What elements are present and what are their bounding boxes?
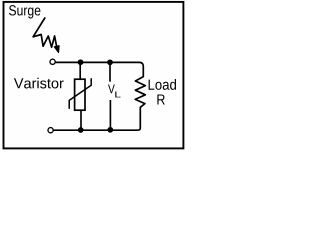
varistor RV1	[69, 79, 91, 110]
node varistor top junction	[78, 59, 84, 65]
wire VL lower segment	[109, 100, 111, 130]
label Varistor	[14, 78, 64, 89]
surge arrow	[33, 18, 59, 52]
wire top rail	[55, 62, 143, 70]
node varistor bottom junction	[78, 127, 84, 133]
wire bottom rail	[54, 129, 137, 131]
wire varistor bottom lead	[80, 110, 82, 130]
wire varistor top lead	[79, 63, 81, 80]
label Load	[149, 79, 176, 90]
label Surge	[9, 5, 40, 18]
label VL	[108, 84, 121, 97]
node VL bottom junction	[107, 127, 113, 133]
terminal T2 bottom input	[48, 128, 53, 133]
wire VL upper segment	[109, 63, 111, 82]
node VL top junction	[107, 59, 113, 65]
terminal T1 top input	[50, 59, 55, 64]
resistor R load	[135, 70, 145, 130]
label R	[157, 94, 164, 104]
